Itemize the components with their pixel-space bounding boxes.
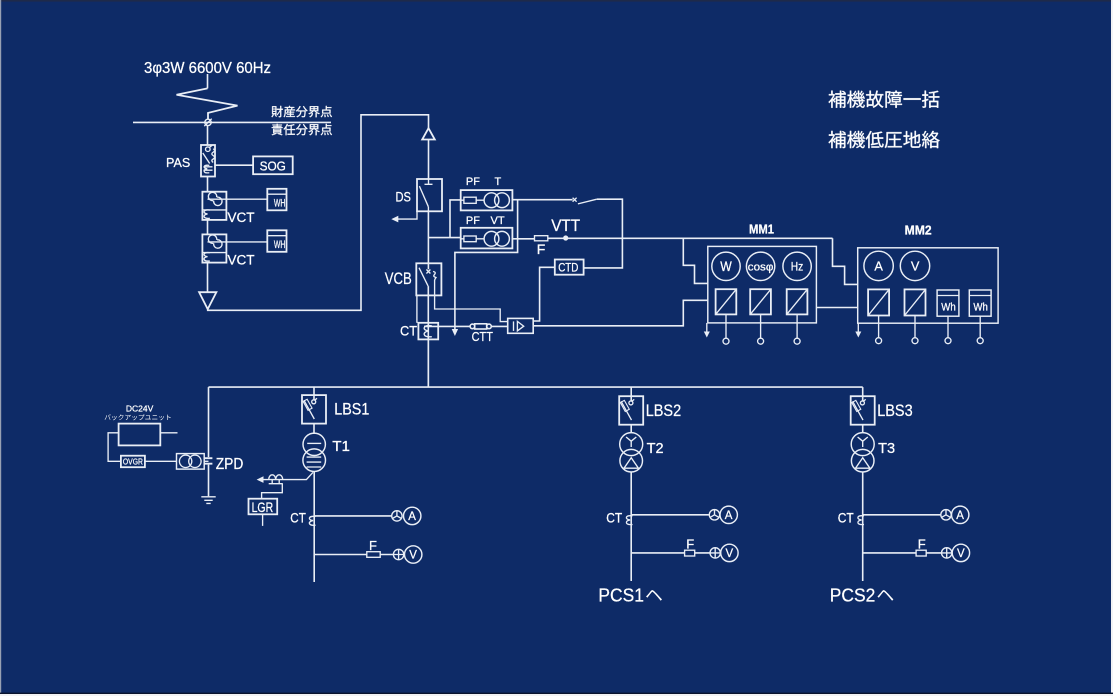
switch LBS1 [302, 395, 326, 424]
relay CTD [555, 260, 584, 275]
wire CT to ammeter T3 [863, 514, 941, 516]
switch LBS3 [851, 396, 875, 425]
wire VTT to MM2 [833, 238, 858, 284]
svg-text:PAS: PAS [166, 155, 191, 170]
wire main bus [209, 386, 863, 388]
transducer cos [750, 289, 771, 314]
label backup unit katakana [105, 414, 171, 420]
wire VCT2 to WH2 [208, 241, 268, 243]
transformer VCT2 [202, 234, 226, 262]
svg-text:ZPD: ZPD [216, 456, 244, 473]
svg-text:DC24V: DC24V [126, 403, 154, 413]
box DC24V backup unit [119, 424, 161, 446]
wire voltmeter line T3 [863, 552, 942, 554]
svg-text:VCT: VCT [228, 210, 255, 225]
wire VCB trip to relay [435, 280, 508, 322]
switch VT test [573, 198, 597, 204]
wire cable head to DS [428, 140, 430, 180]
wire bus drop LBS3 [862, 387, 864, 401]
svg-text:WH: WH [274, 198, 286, 210]
node boundary point circle [204, 119, 211, 126]
svg-text:MM2: MM2 [905, 223, 932, 238]
switch LBS2 [619, 396, 643, 425]
wire PAS to SOG [215, 164, 253, 166]
svg-text:Hz: Hz [791, 260, 804, 274]
relay SOG [253, 156, 293, 174]
wire ZPD to OVGR [145, 460, 177, 462]
wire property boundary line [133, 121, 331, 123]
breaker VCB [416, 263, 441, 295]
label sekinin bunkaiten [272, 124, 332, 135]
wire voltmeter line T2 [631, 552, 710, 554]
panel MM2 [858, 248, 998, 323]
wire incoming drop [207, 74, 209, 88]
meter Hz [783, 252, 811, 280]
transducer A [868, 289, 889, 315]
svg-text:CTD: CTD [558, 261, 578, 275]
svg-text:Wh: Wh [941, 301, 956, 313]
wire branch to T fuse [450, 200, 461, 238]
svg-text:SOG: SOG [260, 158, 286, 173]
svg-text:T1: T1 [332, 438, 350, 455]
svg-text:V: V [957, 548, 965, 560]
svg-text:CT: CT [290, 509, 306, 525]
svg-text:VCB: VCB [385, 270, 412, 288]
wire CT secondary [424, 325, 508, 327]
svg-text:CT: CT [838, 510, 854, 526]
frame bottom edge [0, 693, 1113, 694]
label hoki kosho ikkatsu [829, 91, 940, 108]
wire MM1 to MM2 [816, 307, 857, 309]
svg-text:CTT: CTT [472, 329, 493, 344]
svg-text:PCS1: PCS1 [598, 585, 644, 606]
svg-text:DS: DS [396, 190, 412, 205]
svg-text:A: A [874, 259, 883, 274]
MM2 output terminals [876, 316, 984, 344]
svg-text:W: W [720, 258, 732, 274]
svg-text:A: A [725, 510, 733, 522]
transducer Hz [787, 289, 808, 314]
frame left edge [0, 0, 1, 696]
svg-text:cosφ: cosφ [748, 261, 774, 273]
fuse F T2 [685, 537, 695, 556]
svg-text:CT: CT [400, 323, 417, 339]
meter cos phi [746, 252, 774, 280]
svg-text:A: A [408, 511, 416, 523]
meter Wh2 [969, 290, 991, 316]
wire LBS2 to T2 [630, 425, 632, 433]
wire to PAS [207, 126, 209, 145]
svg-text:V: V [911, 259, 920, 274]
svg-text:CT: CT [606, 510, 622, 526]
meter A [864, 251, 893, 280]
svg-text:WH: WH [274, 239, 286, 251]
panel MM1 [708, 246, 817, 323]
wire VCB box to CT box [416, 295, 418, 322]
wire OVGR to DC24V unit [108, 433, 121, 462]
switch PAS [201, 145, 215, 177]
frame top edge [0, 0, 1113, 2]
wire loop left section to DS riser [208, 115, 429, 310]
current transformer CT T2 [626, 516, 632, 525]
transformer ZPD [177, 454, 205, 470]
wire VCT1 to WH1 [208, 198, 268, 200]
fuse F T1 [367, 538, 380, 558]
current transformer CT T3 [858, 516, 864, 525]
wire DS earth arrow [391, 211, 417, 222]
wire T1 voltmeter line [314, 554, 393, 556]
wire ZPD to ground [208, 465, 210, 497]
meter A T2 [720, 506, 737, 523]
svg-text:F: F [369, 538, 377, 553]
relay OVGR [121, 456, 145, 468]
ground ZPD [201, 497, 215, 504]
cable head triangle down [199, 292, 216, 309]
svg-text:LBS1: LBS1 [334, 400, 369, 419]
transformer VCT1 [202, 192, 226, 220]
svg-text:VCT: VCT [228, 253, 255, 268]
wire LGR stub [262, 514, 264, 526]
wire test switch to CTD [584, 199, 623, 268]
wire T3 feeder [862, 472, 864, 581]
wire CT1 to ammeter [314, 515, 392, 517]
svg-text:T3: T3 [878, 440, 895, 457]
svg-text:OVGR: OVGR [123, 457, 143, 467]
meter W [712, 252, 740, 280]
MM1 output terminals [723, 314, 800, 344]
svg-text:T2: T2 [647, 440, 664, 457]
wire LBS3 to T3 [862, 425, 864, 433]
fused transformer PF-VT [461, 228, 513, 249]
wire PAS to VCT1 [207, 177, 209, 192]
transducer V [905, 289, 926, 315]
fuse F VTT [535, 236, 548, 257]
svg-text:F: F [918, 537, 926, 552]
wire T secondary loop down arrow [452, 200, 518, 336]
wire bus drop LBS1 [313, 387, 315, 400]
transformer T3 [851, 433, 874, 472]
MM2 earth arrow [855, 323, 861, 337]
meter V T3 [952, 544, 969, 561]
relay I> overcurrent [508, 318, 534, 333]
meter WH2 [267, 230, 286, 252]
wire branch to VT fuse [428, 237, 460, 239]
ammeter switch T2 [709, 510, 719, 520]
voltmeter switch T2 [710, 548, 720, 558]
wire VTT to MM1 [683, 238, 708, 283]
transformer T1 [303, 433, 326, 471]
wire T secondary [512, 199, 572, 201]
current transformer CT [418, 323, 438, 340]
svg-text:T: T [495, 176, 502, 188]
wire VT secondary to fuse [512, 238, 534, 240]
relay LGR [249, 499, 278, 516]
wire bus to ZPD [208, 387, 210, 457]
capacitor ZPD [205, 458, 213, 464]
meter V [900, 251, 929, 280]
svg-text:F: F [537, 241, 546, 257]
zero phase CT branch [257, 472, 313, 483]
meter A T1 [404, 507, 421, 524]
svg-text:LGR: LGR [252, 499, 274, 515]
ammeter switch T1 [392, 511, 402, 521]
wire VCT1 to VCT2 [207, 220, 209, 235]
voltmeter switch T3 [942, 548, 952, 558]
svg-text:VTT: VTT [551, 217, 580, 235]
svg-text:LBS2: LBS2 [646, 401, 682, 420]
svg-text:MM1: MM1 [749, 222, 774, 237]
svg-text:Wh: Wh [973, 301, 988, 313]
wire CT to ammeter T2 [631, 514, 709, 516]
label hoki teiatsu chiraku [829, 131, 940, 148]
svg-text:LBS3: LBS3 [877, 401, 913, 420]
wire relay to MM1 [533, 300, 708, 326]
svg-text:VT: VT [491, 215, 505, 227]
wire ZPD tap [204, 460, 208, 462]
wire LBS1 to T1 [313, 424, 315, 434]
wire ZCT to LGR [262, 484, 283, 499]
node VTT [551, 217, 580, 241]
wire VCB to CT [427, 286, 429, 387]
fused transformer PF-T [461, 190, 513, 210]
wire VTT line [548, 237, 833, 239]
wire T1 feeder [313, 471, 315, 582]
wire DS to VCB [427, 211, 429, 269]
label zaisan bunkaiten [271, 106, 332, 117]
disconnector DS [417, 179, 442, 211]
MM1 earth arrow [704, 323, 710, 338]
fuse F T3 [916, 537, 926, 556]
wire feed to bus [427, 339, 429, 387]
meter V T1 [405, 546, 422, 563]
wire bus drop LBS2 [630, 387, 632, 401]
cable head triangle up [422, 128, 435, 139]
terminal CTT [470, 324, 491, 329]
current transformer CT1 [309, 516, 315, 525]
wire T2 feeder [630, 472, 632, 581]
meter WH1 [267, 189, 286, 211]
meter V T2 [721, 544, 738, 561]
svg-text:F: F [686, 537, 694, 552]
svg-text:PF: PF [466, 176, 480, 188]
svg-text:PCS2: PCS2 [830, 585, 876, 606]
svg-text:V: V [726, 548, 734, 560]
transducer W [716, 289, 737, 314]
frame right edge [1111, 0, 1113, 696]
meter Wh1 [937, 290, 959, 316]
svg-text:A: A [956, 510, 964, 522]
voltmeter switch T1 [393, 549, 403, 559]
svg-text:V: V [409, 550, 417, 562]
wire DC24V stub [160, 432, 177, 434]
wire CTD to relay [533, 267, 555, 321]
wire VCT2 down [207, 263, 209, 293]
transformer T2 [620, 433, 643, 472]
meter A T3 [952, 506, 969, 523]
incoming line zigzag [177, 88, 238, 119]
ammeter switch T3 [941, 510, 951, 520]
svg-text:PF: PF [466, 215, 480, 227]
